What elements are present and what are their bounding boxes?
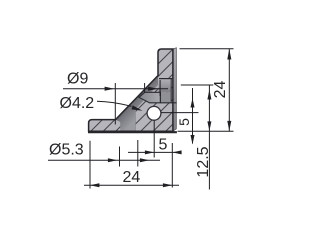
dim Ø5.3 extension lines — [119, 147, 121, 167]
svg-text:12.5: 12.5 — [195, 146, 212, 177]
svg-text:Ø4.2: Ø4.2 — [60, 95, 95, 112]
counterbore recess edges — [159, 78, 172, 80]
leader Ø4.2 — [97, 101, 132, 106]
dim 5 right : dimension line — [192, 88, 194, 144]
svg-text:5: 5 — [176, 118, 192, 126]
bracket cross-section body — [89, 49, 173, 131]
hatching of section face — [32, 40, 257, 140]
thick bottom edge — [88, 131, 177, 133]
counterbore recess shading in corner — [159, 79, 172, 93]
svg-text:Ø5.3: Ø5.3 — [49, 142, 84, 159]
right side face (3D depth) — [173, 48, 177, 132]
dim 24 right : dimension line — [228, 49, 230, 131]
dim Ø9 : dimension line — [63, 88, 168, 90]
hole Ø4.2 (white) — [147, 106, 161, 120]
svg-text:5: 5 — [159, 137, 168, 154]
dim Ø9 extension lines — [114, 83, 116, 125]
svg-text:Ø9: Ø9 — [67, 71, 88, 88]
bracket outline — [89, 49, 173, 131]
dim 24 bottom : dimension line — [84, 184, 179, 186]
extension line left — [89, 141, 91, 189]
counterbore recess pentagon — [139, 92, 160, 103]
gusset column right edge — [134, 110, 136, 132]
dim Ø9 arrows — [105, 87, 115, 91]
extension line right — [171, 143, 173, 188]
dim 24 right : extension lines — [180, 48, 234, 50]
dim 12.5 : dimension line — [208, 85, 210, 189]
gusset slope shading band — [116, 76, 159, 132]
hole centre line (vertical) — [153, 120, 155, 157]
dim Ø5.3 : leader/dimension line — [48, 159, 160, 161]
svg-text:24: 24 — [123, 169, 141, 186]
dim 5 bottom : dimension line — [128, 151, 181, 153]
hole centre line (horizontal) — [161, 112, 199, 114]
svg-text:24: 24 — [212, 81, 229, 99]
